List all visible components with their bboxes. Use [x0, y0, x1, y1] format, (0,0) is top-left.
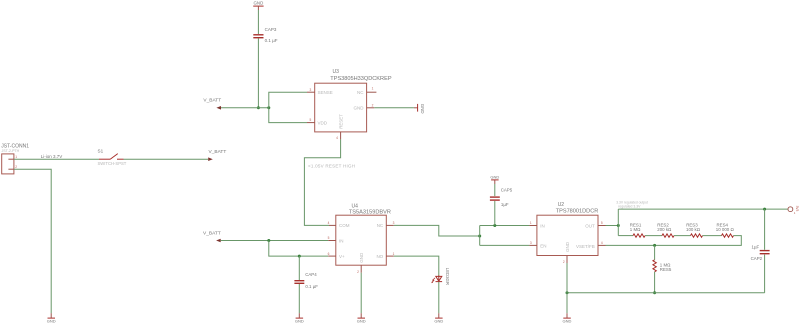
svg-text:GND: GND [359, 252, 364, 263]
wire CAP4 to ground [298, 284, 300, 313]
svg-text:CAP5: CAP5 [501, 188, 513, 193]
wire U3 RESET to U4 COM [304, 139, 340, 225]
resistor RES2 200 kΩ [645, 222, 674, 237]
resistor RES4 10 000 Ω [703, 222, 735, 237]
wire JST pin1 to switch [14, 158, 99, 160]
junction U2 gnd rail [566, 291, 569, 294]
svg-text:2: 2 [372, 103, 374, 107]
pin stub VSET/FB [598, 244, 606, 246]
svg-text:GND: GND [420, 104, 425, 114]
wire JST pin2 to ground [14, 169, 51, 313]
wire LED to ground [438, 282, 440, 313]
junction CAP2 tap [763, 208, 766, 211]
svg-text:JST-2-PTH: JST-2-PTH [2, 149, 20, 153]
wire bracket to U3 SENSE and VDD [269, 92, 307, 122]
junction bus [478, 235, 481, 238]
pin 2 [8, 168, 14, 170]
svg-text:SENSE: SENSE [318, 90, 333, 95]
svg-text:TPS3805H33QDCKREP: TPS3805H33QDCKREP [330, 76, 392, 82]
svg-text:200 kΩ: 200 kΩ [657, 227, 672, 232]
svg-text:Li-ion 3.7V: Li-ion 3.7V [41, 154, 63, 159]
svg-text:VSET/FB: VSET/FB [576, 244, 595, 249]
svg-text:RES5: RES5 [660, 267, 672, 272]
wire V_BATT to bracket [221, 107, 269, 109]
pin stub COM [329, 224, 336, 226]
svg-text:IN: IN [540, 223, 545, 228]
ground at LED [434, 313, 443, 324]
wire U4 NO to LED [394, 256, 439, 276]
net label V_BATT (to U4) [203, 230, 221, 242]
svg-text:GND: GND [47, 319, 56, 324]
svg-text:3V3: 3V3 [795, 206, 799, 212]
svg-text:U3: U3 [333, 69, 340, 75]
pin stub IN [328, 240, 336, 242]
switch S1 SWITCH-SPST [98, 149, 127, 166]
capacitor CAP5 [490, 188, 513, 207]
pin stub SENSE [307, 91, 315, 93]
IC U2 TPS78001DDCR [529, 202, 605, 264]
wire U4 GND to ground [360, 273, 362, 314]
pin stub IN [529, 225, 537, 227]
wire 3V3 rail [618, 208, 788, 210]
svg-text:CAP4: CAP4 [305, 272, 317, 277]
wire OUT node vertical [617, 209, 619, 236]
resistor RES3 100 kΩ [674, 222, 703, 237]
svg-text:1: 1 [393, 252, 395, 256]
svg-text:V_BATT: V_BATT [209, 149, 227, 155]
pin stub GND [360, 265, 362, 273]
LED LED3GR [431, 268, 450, 285]
supply GND top [253, 1, 263, 11]
svg-text:TPS78001DDCR: TPS78001DDCR [556, 208, 599, 214]
svg-text:1: 1 [530, 221, 532, 225]
svg-text:1: 1 [372, 87, 374, 91]
svg-text:IN: IN [339, 238, 344, 243]
svg-text:GND: GND [565, 241, 570, 252]
ground at CAP4 [295, 313, 304, 324]
svg-text:4: 4 [336, 136, 338, 140]
ground at U4 [357, 313, 366, 324]
wire to CAP4 [298, 256, 300, 280]
svg-text:GND: GND [254, 1, 264, 6]
junction [257, 106, 260, 109]
IC U4 TS5A3159DBVR [328, 203, 395, 274]
pin stub GND [367, 107, 375, 109]
svg-text:1 MΩ: 1 MΩ [630, 227, 641, 232]
svg-text:0.1 µF: 0.1 µF [265, 38, 278, 43]
svg-text:2: 2 [357, 270, 359, 274]
wire U3 GND pin to ground [374, 107, 414, 109]
pin stub GND [566, 256, 568, 264]
IC U3 TPS3805H33QDCKREP [307, 69, 392, 140]
pin stub VDD [307, 122, 315, 124]
svg-text:4: 4 [328, 221, 330, 225]
svg-text:VDD: VDD [318, 120, 328, 125]
wire CAP5 to ground [494, 184, 496, 196]
wire CAP2 to bottom rail [764, 255, 766, 293]
pad 3V3 [788, 206, 799, 216]
wire bus to U2 IN [480, 225, 530, 227]
wire to CAP5 [494, 201, 496, 226]
svg-text:U2: U2 [558, 202, 565, 208]
junction CAP5 tap [493, 224, 496, 227]
svg-text:<1.05V RESET HIGH: <1.05V RESET HIGH [308, 164, 355, 169]
ground at battery [47, 313, 56, 324]
capacitor CAP3 [253, 27, 277, 43]
wire GND to CAP3 [257, 10, 259, 34]
ground above CAP5 [490, 175, 499, 185]
svg-text:U4: U4 [352, 203, 359, 209]
junction RES5 tap [653, 244, 656, 247]
net label V_BATT (to U3) [203, 97, 221, 109]
capacitor CAP4 [294, 272, 318, 289]
net label V_BATT (source) [208, 149, 226, 161]
svg-text:NC: NC [377, 223, 384, 228]
svg-text:COM: COM [339, 223, 350, 228]
pin stub NC [367, 91, 377, 93]
svg-text:LED3GR: LED3GR [445, 268, 450, 285]
svg-text:S1: S1 [98, 149, 104, 154]
svg-text:GND: GND [434, 319, 443, 324]
resistor RES5 1 MΩ [653, 245, 672, 292]
svg-text:GND: GND [563, 319, 572, 324]
svg-text:GND: GND [490, 175, 499, 180]
pin stub NO [386, 255, 394, 257]
svg-text:GND: GND [357, 319, 366, 324]
resistor RES1 1 MΩ [618, 222, 645, 237]
ground at U2 [563, 313, 572, 324]
junction [267, 239, 270, 242]
wire switch to V_BATT arrow [124, 158, 209, 160]
junction OUT [617, 224, 620, 227]
svg-text:5: 5 [601, 221, 603, 225]
junction RES5 bottom [653, 291, 656, 294]
svg-text:1µF: 1µF [501, 202, 509, 207]
wire bottom ground rail [567, 292, 765, 294]
svg-text:V+: V+ [339, 254, 345, 259]
svg-text:0.1 µF: 0.1 µF [305, 284, 318, 289]
svg-text:3: 3 [530, 241, 532, 245]
wire CAP2 drop [764, 209, 766, 250]
svg-text:2: 2 [15, 165, 17, 169]
svg-text:1: 1 [15, 155, 17, 159]
svg-text:CAP3: CAP3 [265, 27, 277, 32]
pin 1 [8, 158, 14, 160]
wire U2 GND to ground [566, 263, 568, 313]
svg-text:5: 5 [328, 236, 330, 240]
svg-text:RESET: RESET [338, 114, 343, 129]
svg-text:GND: GND [354, 106, 365, 111]
ground (rotated) at U3 GND [414, 104, 425, 114]
pin stub RESET [340, 132, 342, 140]
svg-text:2: 2 [563, 260, 565, 264]
svg-text:NC: NC [357, 90, 364, 95]
svg-text:1µF: 1µF [752, 245, 760, 250]
svg-text:100 kΩ: 100 kΩ [686, 227, 701, 232]
svg-text:TS5A3159DBVR: TS5A3159DBVR [349, 210, 391, 216]
junction [267, 106, 270, 109]
svg-text:OUT: OUT [585, 223, 595, 228]
connector JST-CONN1 [1, 144, 29, 174]
pin stub NC [386, 224, 394, 226]
svg-text:V_BATT: V_BATT [203, 97, 221, 103]
svg-text:4: 4 [601, 241, 603, 245]
svg-text:CAP2: CAP2 [751, 256, 763, 261]
wire CAP3 to node [257, 38, 259, 107]
pin stub V+ [328, 255, 336, 257]
svg-text:EN: EN [540, 243, 546, 248]
svg-text:5: 5 [310, 118, 312, 122]
svg-text:NO: NO [376, 254, 383, 259]
svg-text:V_BATT: V_BATT [203, 230, 221, 236]
svg-text:regulated 3.3V: regulated 3.3V [618, 205, 641, 209]
wire U2 OUT to node [606, 225, 619, 227]
pin stub EN [529, 244, 537, 246]
svg-text:GND: GND [295, 319, 304, 324]
wire branch to U4 V+ [269, 241, 329, 257]
wire V_BATT to U4 IN [221, 240, 329, 242]
svg-text:10 000 Ω: 10 000 Ω [716, 227, 735, 232]
junction [298, 255, 301, 258]
wire U4 NC to bus [394, 225, 480, 236]
svg-text:SWITCH-SPST: SWITCH-SPST [98, 161, 127, 166]
wire bus vertical [479, 226, 481, 246]
wire bus to U2 EN [480, 244, 530, 246]
pin stub OUT [598, 225, 606, 227]
capacitor CAP2 [751, 245, 770, 261]
svg-text:3: 3 [393, 221, 395, 225]
wire RES4 to corner and back to VSET/FB [606, 236, 742, 246]
svg-text:6: 6 [328, 252, 330, 256]
svg-text:3: 3 [310, 88, 312, 92]
